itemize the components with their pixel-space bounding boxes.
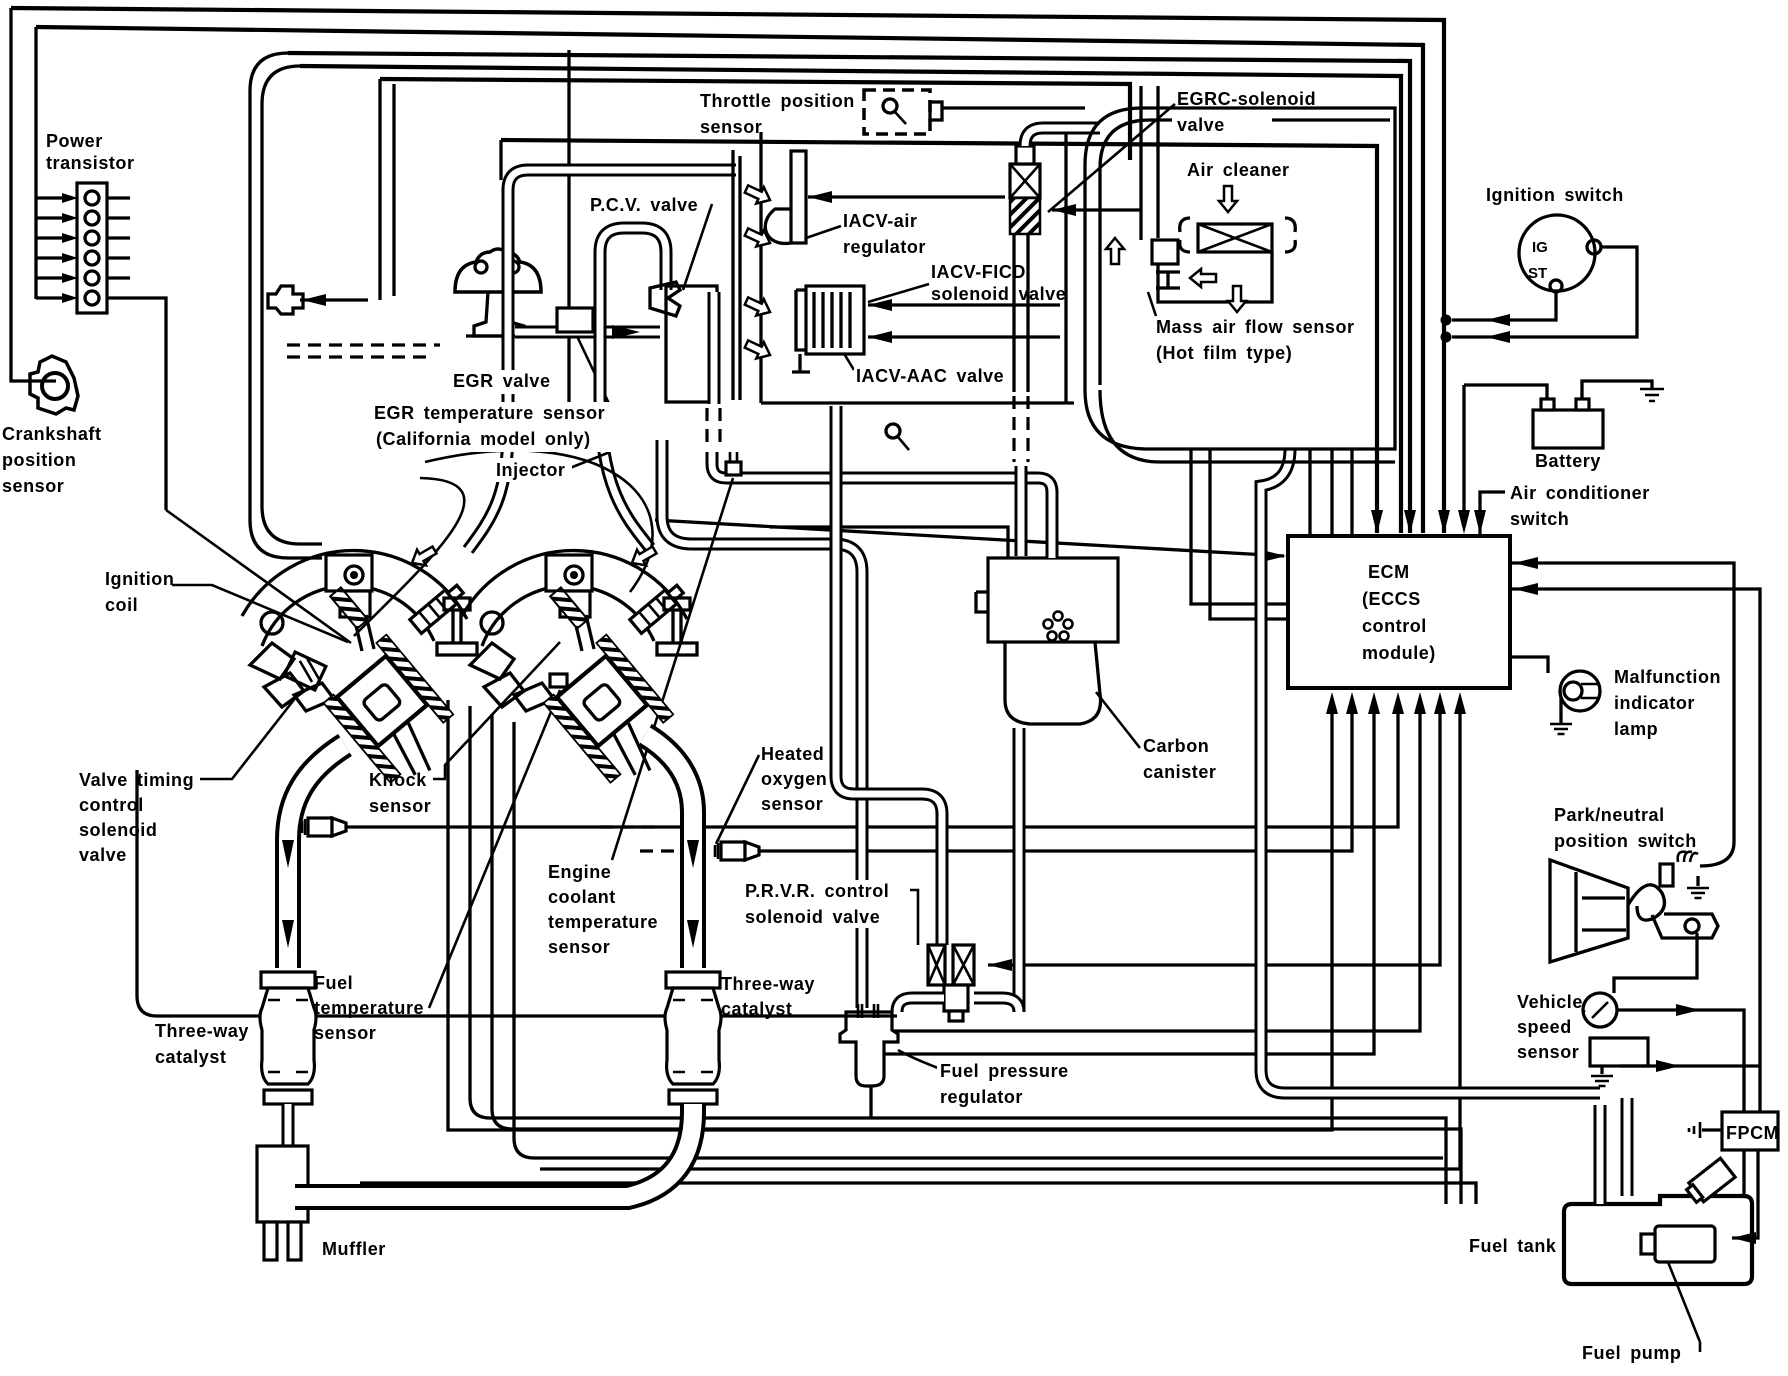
- svg-text:Fuel: Fuel: [314, 973, 353, 993]
- svg-text:sensor: sensor: [314, 1023, 376, 1043]
- svg-text:Crankshaft: Crankshaft: [2, 424, 102, 444]
- svg-text:regulator: regulator: [843, 237, 926, 257]
- svg-text:Three-way: Three-way: [155, 1021, 249, 1041]
- svg-text:catalyst: catalyst: [721, 999, 792, 1019]
- svg-text:Heated: Heated: [761, 744, 824, 764]
- svg-text:Air conditioner: Air conditioner: [1510, 483, 1650, 503]
- svg-text:EGR temperature sensor: EGR temperature sensor: [374, 403, 605, 423]
- svg-text:transistor: transistor: [46, 153, 135, 173]
- svg-text:P.R.V.R. control: P.R.V.R. control: [745, 881, 889, 901]
- svg-text:switch: switch: [1510, 509, 1569, 529]
- svg-text:sensor: sensor: [2, 476, 64, 496]
- svg-text:sensor: sensor: [700, 117, 762, 137]
- svg-text:Vehicle: Vehicle: [1517, 992, 1583, 1012]
- svg-text:coolant: coolant: [548, 887, 616, 907]
- svg-text:speed: speed: [1517, 1017, 1572, 1037]
- svg-text:lamp: lamp: [1614, 719, 1658, 739]
- svg-text:coil: coil: [105, 595, 138, 615]
- svg-text:solenoid valve: solenoid valve: [745, 907, 880, 927]
- svg-text:temperature: temperature: [314, 998, 424, 1018]
- svg-text:Fuel pressure: Fuel pressure: [940, 1061, 1069, 1081]
- svg-text:Carbon: Carbon: [1143, 736, 1209, 756]
- svg-text:(California model only): (California model only): [376, 429, 591, 449]
- svg-text:module): module): [1362, 643, 1436, 663]
- svg-text:(ECCS: (ECCS: [1362, 589, 1421, 609]
- svg-text:ST: ST: [1528, 265, 1547, 282]
- svg-text:EGR valve: EGR valve: [453, 371, 551, 391]
- svg-text:IACV-FICD: IACV-FICD: [931, 262, 1026, 282]
- svg-text:Knock: Knock: [369, 770, 427, 790]
- svg-text:Fuel pump: Fuel pump: [1582, 1343, 1681, 1363]
- svg-text:canister: canister: [1143, 762, 1216, 782]
- svg-text:Mass air flow sensor: Mass air flow sensor: [1156, 317, 1355, 337]
- svg-text:solenoid valve: solenoid valve: [931, 284, 1066, 304]
- svg-text:Air cleaner: Air cleaner: [1187, 160, 1290, 180]
- svg-text:Throttle position: Throttle position: [700, 91, 855, 111]
- svg-text:IACV-air: IACV-air: [843, 211, 917, 231]
- svg-text:Ignition switch: Ignition switch: [1486, 185, 1624, 205]
- svg-text:IG: IG: [1532, 239, 1548, 256]
- svg-text:Injector: Injector: [496, 460, 565, 480]
- svg-text:Park/neutral: Park/neutral: [1554, 805, 1665, 825]
- svg-text:FPCM: FPCM: [1726, 1123, 1779, 1143]
- svg-text:ECM: ECM: [1368, 562, 1410, 582]
- svg-text:Engine: Engine: [548, 862, 611, 882]
- svg-text:Battery: Battery: [1535, 451, 1601, 471]
- svg-text:catalyst: catalyst: [155, 1047, 226, 1067]
- svg-text:regulator: regulator: [940, 1087, 1023, 1107]
- svg-text:(Hot film type): (Hot film type): [1156, 343, 1292, 363]
- svg-text:Valve timing: Valve timing: [79, 770, 194, 790]
- svg-text:Three-way: Three-way: [721, 974, 815, 994]
- svg-text:control: control: [1362, 616, 1427, 636]
- svg-text:IACV-AAC valve: IACV-AAC valve: [856, 366, 1004, 386]
- svg-text:Malfunction: Malfunction: [1614, 667, 1721, 687]
- svg-text:temperature: temperature: [548, 912, 658, 932]
- svg-text:P.C.V. valve: P.C.V. valve: [590, 195, 698, 215]
- svg-text:sensor: sensor: [548, 937, 610, 957]
- svg-text:Ignition: Ignition: [105, 569, 174, 589]
- svg-text:sensor: sensor: [1517, 1042, 1579, 1062]
- svg-text:Muffler: Muffler: [322, 1239, 386, 1259]
- svg-text:position switch: position switch: [1554, 831, 1697, 851]
- svg-text:oxygen: oxygen: [761, 769, 827, 789]
- svg-text:sensor: sensor: [369, 796, 431, 816]
- svg-text:valve: valve: [1177, 115, 1225, 135]
- svg-text:valve: valve: [79, 845, 127, 865]
- svg-text:position: position: [2, 450, 76, 470]
- svg-text:Fuel tank: Fuel tank: [1469, 1236, 1557, 1256]
- svg-text:EGRC-solenoid: EGRC-solenoid: [1177, 89, 1316, 109]
- svg-text:indicator: indicator: [1614, 693, 1695, 713]
- svg-text:sensor: sensor: [761, 794, 823, 814]
- svg-text:solenoid: solenoid: [79, 820, 157, 840]
- svg-text:control: control: [79, 795, 144, 815]
- svg-text:Power: Power: [46, 131, 103, 151]
